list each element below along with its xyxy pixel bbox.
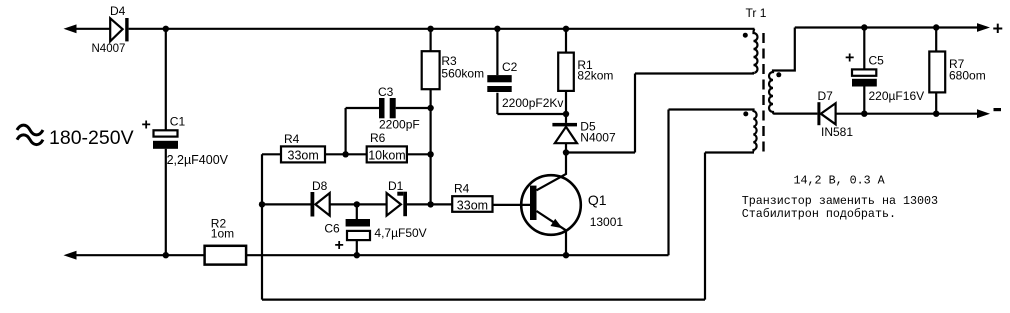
resistor R7 xyxy=(935,28,937,52)
node feedback / D8 xyxy=(259,201,265,207)
AC line arrow left (top) xyxy=(64,24,77,33)
resistor R3 xyxy=(430,29,432,51)
transformer Tr1 primary winding xyxy=(754,29,758,74)
svg-text:N4007: N4007 xyxy=(580,131,616,145)
svg-text:D1: D1 xyxy=(388,179,404,193)
wire top rail right of D4 xyxy=(129,28,755,30)
svg-text:2,2µF400V: 2,2µF400V xyxy=(167,153,229,167)
node top rail / C5 xyxy=(861,24,867,30)
node bottom rail / C1 xyxy=(163,252,169,258)
svg-text:1om: 1om xyxy=(211,227,234,241)
svg-text:N4007: N4007 xyxy=(92,43,126,55)
phase dot primary xyxy=(743,33,748,38)
node bottom rail / emitter Q1 xyxy=(563,252,569,258)
transformer Tr1 aux winding xyxy=(669,110,757,153)
node R6 right column xyxy=(427,151,433,157)
wire top rail left segment xyxy=(70,28,110,30)
emitter wire Q1 xyxy=(537,211,567,255)
svg-text:+: + xyxy=(335,237,344,254)
wire aux top to bottom rail xyxy=(667,110,669,256)
svg-text:560kom: 560kom xyxy=(441,67,484,81)
node bottom rail / C5 xyxy=(861,111,867,117)
wire bottom loop xyxy=(262,153,705,300)
AC source symbol xyxy=(17,125,43,144)
collector wire Q1 xyxy=(537,153,567,191)
svg-text:D7: D7 xyxy=(818,89,834,103)
svg-text:33om: 33om xyxy=(288,148,319,162)
diode D8 xyxy=(311,192,315,217)
wire R4-R6 row xyxy=(262,153,431,155)
diode D4 xyxy=(110,18,122,41)
svg-text:180-250V: 180-250V xyxy=(49,127,134,149)
node C3 left xyxy=(342,151,348,157)
capacitor C1 xyxy=(165,29,167,131)
capacitor C2 xyxy=(496,29,498,75)
node top rail / R3 xyxy=(427,26,433,32)
svg-text:IN581: IN581 xyxy=(821,125,853,139)
phase dot aux xyxy=(743,111,748,116)
transformer Tr1 secondary winding xyxy=(769,28,817,114)
svg-text:Q1: Q1 xyxy=(588,192,607,208)
svg-text:C5: C5 xyxy=(869,54,885,68)
output arrow + xyxy=(977,23,990,32)
svg-text:Tr 1: Tr 1 xyxy=(746,6,767,20)
resistor R4 (33om left) xyxy=(281,146,325,162)
svg-text:R6: R6 xyxy=(370,131,386,145)
svg-text:2200pF: 2200pF xyxy=(379,118,420,132)
node top rail / R1 xyxy=(563,26,569,32)
AC line arrow left (bottom) xyxy=(64,251,77,260)
svg-text:D4: D4 xyxy=(110,4,126,18)
diode D7 xyxy=(817,102,820,125)
output arrow - xyxy=(977,109,990,118)
node R1/C2/D5 xyxy=(563,111,569,117)
resistor R1 xyxy=(565,29,567,53)
svg-text:R4: R4 xyxy=(284,132,300,146)
wire secondary top rail xyxy=(795,26,987,28)
svg-text:680om: 680om xyxy=(949,69,986,83)
svg-text:R4: R4 xyxy=(454,182,470,196)
wire left feedback vertical xyxy=(261,154,263,299)
node bottom rail / R7 xyxy=(933,111,939,117)
svg-text:C1: C1 xyxy=(170,115,186,129)
node C6 top xyxy=(354,201,360,207)
svg-text:82kom: 82kom xyxy=(577,69,613,83)
diode D5 xyxy=(565,114,567,123)
phase dot secondary xyxy=(776,72,781,77)
svg-text:2200pF2Kv: 2200pF2Kv xyxy=(502,96,563,110)
svg-text:13001: 13001 xyxy=(590,215,624,229)
label - output xyxy=(994,108,1002,111)
wire secondary bottom rail xyxy=(836,113,987,115)
wire bottom rail xyxy=(72,254,669,256)
svg-text:D8: D8 xyxy=(312,179,328,193)
svg-text:33om: 33om xyxy=(457,198,488,212)
capacitor C5 xyxy=(863,28,865,70)
capacitor C6 xyxy=(356,204,358,219)
resistor R6 xyxy=(367,146,407,162)
svg-text:C6: C6 xyxy=(324,222,340,236)
node bottom rail / C6 xyxy=(354,252,360,258)
diode D1 xyxy=(387,193,401,216)
resistor R4 (33om base) xyxy=(452,196,492,212)
svg-text:Стабилитрон подобрать.: Стабилитрон подобрать. xyxy=(742,207,896,221)
node top rail / C2 xyxy=(494,26,500,32)
svg-text:4,7µF50V: 4,7µF50V xyxy=(374,226,426,240)
resistor R2 xyxy=(205,246,247,265)
transformer core xyxy=(762,33,764,154)
svg-text:C2: C2 xyxy=(502,60,518,74)
svg-text:C3: C3 xyxy=(378,85,394,99)
wire D8 row xyxy=(262,203,431,205)
capacitor C3 xyxy=(346,108,431,154)
svg-text:+: + xyxy=(845,50,854,67)
svg-text:+: + xyxy=(993,19,1004,39)
node D1 / R4 / column xyxy=(427,201,433,207)
svg-text:14,2 В, 0.3 А: 14,2 В, 0.3 А xyxy=(794,174,886,188)
svg-text:+: + xyxy=(142,117,151,134)
node top rail / C1 xyxy=(163,26,169,32)
transistor Q1 xyxy=(521,175,581,235)
svg-text:220µF16V: 220µF16V xyxy=(869,89,925,103)
svg-text:10kom: 10kom xyxy=(368,148,406,162)
node top rail / R7 xyxy=(933,24,939,30)
wire D5 to primary bottom xyxy=(566,74,754,153)
wire R4b row xyxy=(431,203,530,206)
node C3 right xyxy=(427,105,433,111)
node D5 / collector xyxy=(563,149,569,155)
